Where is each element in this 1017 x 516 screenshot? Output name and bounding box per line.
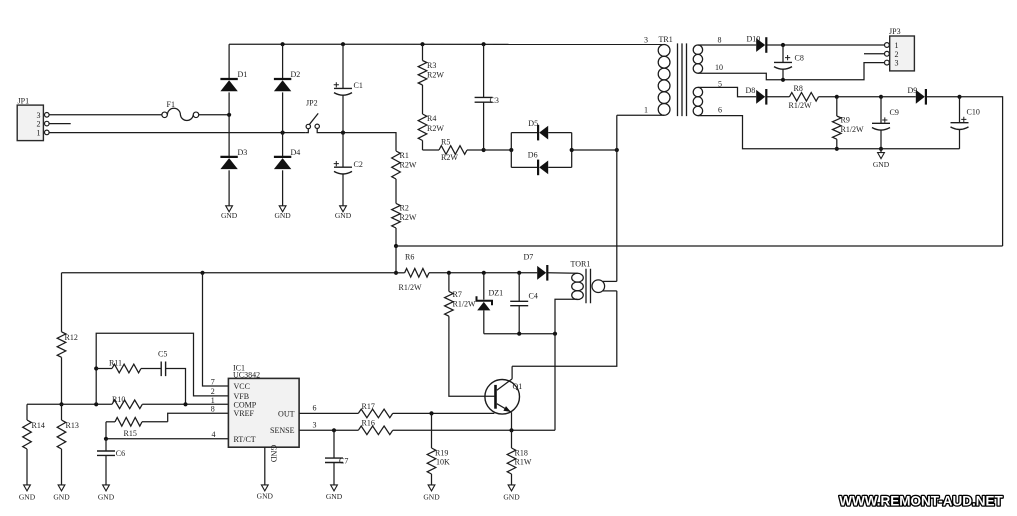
junction bus/C3 (482, 42, 486, 46)
wire VCC vertical (203, 273, 229, 386)
transformer TR1 (658, 43, 702, 116)
junction R19 top (429, 411, 433, 415)
junction C7 top (332, 428, 336, 432)
svg-text:10: 10 (715, 63, 723, 72)
wire D6 rail right (548, 166, 572, 168)
junction aux node (394, 271, 398, 275)
junction C10 top (957, 95, 961, 99)
op-amp U1 (IC1 UC3842 PWM controller) (228, 363, 299, 462)
svg-text:C3: C3 (490, 96, 499, 105)
svg-text:R12: R12 (65, 333, 78, 342)
wire D7 to TOR1 (548, 272, 578, 274)
wire D6 rail left (511, 166, 537, 168)
wire TR1 pin1 tail (617, 114, 664, 116)
svg-text:JP3: JP3 (889, 27, 901, 36)
svg-text:R7: R7 (453, 290, 462, 299)
wire aux line left (62, 272, 397, 274)
capacitor C6 (97, 439, 125, 485)
wire OUT to Q1 emitter area (432, 412, 495, 414)
wire Q1 emitter down (511, 412, 513, 430)
junction R7 top (447, 271, 451, 275)
svg-text:1: 1 (895, 41, 899, 50)
capacitor C8 (774, 45, 804, 80)
svg-text:DZ1: DZ1 (489, 288, 504, 297)
svg-text:C5: C5 (158, 349, 167, 358)
svg-text:R4: R4 (427, 114, 436, 123)
wire COMP line (R10 net) (27, 403, 112, 405)
svg-text:R10: R10 (112, 395, 125, 404)
svg-text:R2W: R2W (441, 153, 458, 162)
junction bus/R3 (420, 42, 424, 46)
svg-text:UC3842: UC3842 (233, 371, 260, 380)
svg-text:D1: D1 (238, 70, 248, 79)
resistor R1 (392, 151, 401, 191)
svg-text:JP1: JP1 (18, 97, 30, 106)
svg-text:2: 2 (37, 120, 41, 129)
junction R11 left (94, 366, 98, 370)
switch JP2 (306, 99, 321, 133)
svg-text:R2: R2 (400, 204, 409, 213)
svg-text:R1/2W: R1/2W (453, 300, 477, 309)
svg-text:R1/2W: R1/2W (789, 101, 813, 110)
junction R15/C6/RTCT (104, 437, 108, 441)
wire D5/D6 to primary return (572, 149, 617, 151)
wire JP1 pin3 to F1 (49, 114, 162, 116)
svg-text:10K: 10K (436, 457, 450, 466)
resistor R17 (299, 409, 431, 418)
wire feedback line (396, 245, 1003, 247)
svg-text:R2W: R2W (427, 71, 444, 80)
junction rail/TOR1 return (553, 332, 557, 336)
resistor R7 (445, 273, 454, 330)
wire D3 anode to GND (228, 170, 230, 206)
resistor R11 (96, 364, 161, 373)
svg-text:SENSE: SENSE (270, 426, 295, 435)
ground C9 (873, 149, 890, 169)
svg-text:OUT: OUT (278, 409, 295, 418)
svg-text:R18: R18 (515, 449, 528, 458)
wire R15 to VREF (168, 413, 229, 422)
svg-text:GND: GND (335, 211, 352, 220)
junction R12/R13/R10 (59, 402, 63, 406)
ground R18 (503, 485, 520, 502)
svg-text:TOR1: TOR1 (571, 259, 591, 268)
resistor R18 (507, 430, 516, 485)
wire TOR1 to Q1 collector (512, 291, 617, 366)
capacitor C10 (951, 97, 980, 149)
svg-text:4: 4 (212, 430, 216, 439)
ground R14 (19, 485, 36, 502)
svg-text:R6: R6 (405, 253, 414, 262)
svg-text:GND: GND (873, 160, 890, 169)
svg-text:R9: R9 (841, 116, 850, 125)
wire TR1 pin1 down to TOR1 (616, 115, 618, 281)
junction emitter/R18 (509, 428, 513, 432)
wire output to feedback corner (960, 97, 1003, 246)
svg-text:TR1: TR1 (659, 35, 673, 44)
diode D4 (274, 148, 300, 169)
junction VFB divider (94, 402, 98, 406)
junction D5/D6 right (570, 148, 574, 152)
junction C5/COMP (183, 402, 187, 406)
wire D9 to C10 (927, 96, 960, 98)
svg-text:1: 1 (644, 106, 648, 115)
junction pin1/D2/D4 (281, 131, 285, 135)
svg-text:D5: D5 (528, 119, 538, 128)
wire R8 node to C9 (837, 96, 881, 98)
resistor R9 (833, 97, 842, 149)
diode D6 (528, 150, 548, 175)
wire D5 rail right (548, 132, 572, 134)
ground D3 (221, 206, 238, 220)
diode D9 (908, 86, 926, 105)
ground C2 (335, 206, 352, 220)
wire R7 to Q1 base (449, 330, 495, 396)
wire top bus (229, 43, 665, 45)
svg-text:D10: D10 (747, 35, 761, 44)
junction C4 top (517, 271, 521, 275)
svg-text:GND: GND (503, 493, 520, 502)
svg-text:GND: GND (53, 493, 70, 502)
wire R15 left corner (105, 422, 107, 439)
svg-text:6: 6 (313, 403, 317, 412)
wire R2 bottom to aux node (395, 246, 397, 273)
wire JP2 to C1/C2 and R1 (321, 133, 397, 151)
resistor R3 (418, 44, 427, 99)
svg-text:R19: R19 (435, 449, 448, 458)
svg-text:Q1: Q1 (513, 382, 523, 391)
resistor R19 (427, 413, 436, 485)
wire DZ1/C4 bottom rail (484, 333, 555, 335)
capacitor C3 (475, 44, 499, 150)
svg-text:WWW.REMONT-AUD.NET: WWW.REMONT-AUD.NET (839, 494, 1003, 509)
svg-text:R2W: R2W (400, 161, 417, 170)
resistor R16 (299, 426, 511, 435)
svg-text:R5: R5 (441, 138, 450, 147)
resistor R13 (57, 404, 66, 485)
junction D5/D6 left (509, 148, 513, 152)
ground D4 (274, 206, 291, 220)
transistor Q1 (485, 379, 522, 414)
capacitor C7 (325, 430, 348, 485)
capacitor C4 (510, 273, 538, 334)
svg-text:GND: GND (269, 445, 278, 463)
svg-text:D6: D6 (528, 150, 538, 159)
capacitor C5 (158, 349, 167, 376)
svg-text:7: 7 (211, 377, 215, 386)
wire C5 to COMP (166, 369, 186, 405)
junction bus/D2 (281, 42, 285, 46)
junction bus/C1 (341, 42, 345, 46)
svg-text:3: 3 (313, 420, 317, 429)
svg-text:GND: GND (274, 211, 291, 220)
diode D10 (747, 35, 767, 53)
svg-text:R17: R17 (362, 402, 375, 411)
diode D2 (274, 70, 300, 91)
svg-text:C6: C6 (116, 449, 125, 458)
capacitor C1 (334, 44, 363, 132)
fuse F1 (162, 100, 199, 121)
transformer TOR1 (572, 269, 605, 304)
svg-text:D2: D2 (291, 70, 301, 79)
svg-text:R2W: R2W (427, 124, 444, 133)
svg-text:1: 1 (37, 128, 41, 137)
svg-text:R13: R13 (66, 421, 79, 430)
wire TR1 pin10 step (698, 63, 884, 80)
diode D5 (528, 119, 548, 141)
wire D2 cathode (282, 44, 284, 79)
snubber box left edge (510, 133, 512, 168)
resistor R10 (112, 400, 228, 409)
resistor R6 (396, 269, 449, 278)
wire RT/CT line (106, 438, 228, 440)
wire D10 to JP3 pin1 (767, 44, 884, 46)
svg-text:C2: C2 (354, 160, 363, 169)
ground C7 (326, 485, 343, 501)
svg-text:C4: C4 (529, 292, 538, 301)
svg-text:GND: GND (221, 211, 238, 220)
wire SENSE line to x555 (512, 429, 556, 431)
svg-text:GND: GND (257, 492, 274, 501)
wire D1 cathode (228, 44, 230, 79)
svg-text:3: 3 (37, 111, 41, 120)
resistor R5 (423, 146, 484, 155)
svg-text:R1W: R1W (515, 457, 532, 466)
capacitor C2 (334, 133, 363, 206)
wire TR1 pin5 to D8 (698, 87, 756, 96)
resistor R12 (57, 273, 66, 405)
wire TR1 pin6 to bottom rail (698, 116, 960, 149)
junction C9 bottom (879, 147, 883, 151)
capacitor C9 (872, 97, 899, 149)
svg-text:C10: C10 (967, 108, 980, 117)
svg-text:D8: D8 (746, 86, 756, 95)
resistor R2 (392, 191, 401, 246)
svg-text:R1/2W: R1/2W (399, 283, 423, 292)
ground R13 (53, 485, 70, 502)
junction R2/feedback line (394, 244, 398, 248)
resistor R14 (23, 420, 32, 485)
svg-text:R3: R3 (427, 61, 436, 70)
wire R6 to D7 (449, 272, 537, 274)
svg-text:D7: D7 (524, 252, 534, 261)
svg-text:R8: R8 (794, 84, 803, 93)
diode D3 (220, 148, 247, 169)
svg-text:2: 2 (211, 387, 215, 396)
svg-text:R16: R16 (362, 418, 375, 427)
svg-text:C9: C9 (890, 108, 899, 117)
resistor R15 (106, 418, 168, 427)
resistor R4 (418, 99, 427, 150)
svg-text:8: 8 (211, 405, 215, 414)
wire D5 rail left (511, 132, 537, 134)
svg-text:2: 2 (895, 50, 899, 59)
wire JP1 pin1 to JP2 (49, 132, 306, 134)
junction C9 top (879, 95, 883, 99)
wire R5 node to D5/D6 box (484, 149, 512, 151)
svg-text:R1: R1 (400, 151, 409, 160)
wire TR1 pin8 to D10 (698, 44, 756, 46)
svg-text:GND: GND (98, 493, 115, 502)
svg-text:R11: R11 (109, 358, 122, 367)
svg-text:R1/2W: R1/2W (841, 125, 865, 134)
wire VFB vertical (96, 333, 228, 404)
wire D2 anode / D4 cathode (282, 92, 284, 156)
svg-text:RT/CT: RT/CT (234, 435, 256, 444)
snubber box right edge (571, 133, 573, 168)
wire IC GND pin (264, 447, 266, 485)
wire JP1 pin2 stub (49, 123, 71, 125)
wire TOR1 right winding top tail (603, 280, 617, 282)
wire F1 to bridge node (199, 114, 229, 116)
wire D1 anode / D3 cathode (228, 92, 230, 156)
wire D4 anode to GND (282, 170, 284, 206)
svg-text:R2W: R2W (400, 213, 417, 222)
svg-text:F1: F1 (167, 100, 175, 109)
svg-text:D9: D9 (908, 86, 918, 95)
junction R5/C3 (482, 148, 486, 152)
svg-text:JP2: JP2 (306, 99, 318, 108)
connector JP1 (17, 97, 49, 141)
svg-text:8: 8 (718, 36, 722, 45)
svg-text:R14: R14 (32, 421, 45, 430)
ground IC1 (257, 485, 274, 501)
wire TOR1 right winding bottom tail (603, 290, 617, 292)
wire R14 corner (26, 404, 28, 420)
connector JP3 (885, 27, 915, 71)
ground R19 (423, 485, 440, 502)
diode D7 (524, 252, 548, 280)
svg-text:GND: GND (423, 493, 440, 502)
svg-text:3: 3 (895, 59, 899, 68)
svg-text:VCC: VCC (234, 382, 250, 391)
svg-text:COMP: COMP (234, 400, 257, 409)
zener DZ1 (477, 273, 504, 334)
ground C6 (98, 485, 115, 502)
svg-text:D4: D4 (291, 148, 301, 157)
wire Q1 collector up (511, 366, 513, 379)
svg-text:C7: C7 (339, 456, 348, 465)
svg-text:GND: GND (326, 492, 343, 501)
svg-text:3: 3 (644, 36, 648, 45)
diode D1 (220, 70, 247, 91)
junction C4 bottom (517, 332, 521, 336)
svg-text:D3: D3 (238, 148, 248, 157)
wire JP3 pin2 stub (864, 53, 884, 55)
junction R8/R9 (835, 95, 839, 99)
junction C1/C2 node (341, 131, 345, 135)
junction C8 bottom (781, 78, 785, 82)
junction VCC feed (200, 271, 204, 275)
resistor R8 (767, 93, 837, 102)
svg-text:GND: GND (19, 493, 36, 502)
svg-text:1: 1 (211, 396, 215, 405)
svg-text:VREF: VREF (234, 409, 255, 418)
wire TOR1 left winding bottom tail (555, 299, 578, 430)
junction fuse/D1/D3 (227, 113, 231, 117)
svg-text:C8: C8 (795, 54, 804, 63)
svg-text:6: 6 (718, 106, 722, 115)
svg-text:C1: C1 (354, 81, 363, 90)
junction primary return (615, 148, 619, 152)
junction DZ1 top (482, 271, 486, 275)
junction C8 top (781, 43, 785, 47)
wire C9 to D9 (881, 96, 916, 98)
junction R9 bottom (835, 147, 839, 151)
diode D8 (746, 86, 767, 105)
svg-text:R15: R15 (124, 429, 137, 438)
